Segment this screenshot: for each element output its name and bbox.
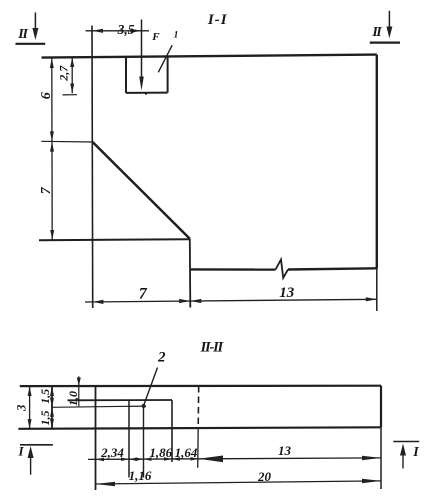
- svg-text:13: 13: [279, 285, 295, 301]
- section marker II left: label: [17, 27, 28, 42]
- svg-text:1,16: 1,16: [129, 468, 152, 483]
- svg-text:2,7: 2,7: [56, 65, 70, 82]
- svg-text:20: 20: [257, 469, 272, 484]
- body bottom edge left part: [190, 268, 275, 271]
- label 13 (top figure): [279, 285, 295, 301]
- label 1,5 lower: [38, 411, 52, 426]
- body right edge with extension below: [376, 55, 378, 311]
- hole left edge x=95.5 with extension below: [95, 386, 97, 490]
- force F line and arrow: [139, 20, 144, 91]
- label 1,64: [175, 445, 198, 460]
- inner vertical x=129 with extension below: [128, 400, 130, 477]
- svg-text:I-I: I-I: [207, 12, 228, 28]
- section marker I left: label: [17, 444, 24, 459]
- leader line for 2: [144, 368, 158, 406]
- slot left edge: [125, 57, 127, 93]
- label 6: [39, 92, 54, 99]
- hole right edge x=172 with extension below: [171, 400, 173, 462]
- svg-text:I: I: [412, 445, 419, 460]
- slot bottom edge: [126, 92, 168, 94]
- label 2: [157, 350, 166, 366]
- svg-text:II-II: II-II: [200, 340, 225, 356]
- svg-text:1,5: 1,5: [38, 411, 52, 426]
- label F: [151, 31, 160, 43]
- svg-text:1,64: 1,64: [175, 445, 198, 460]
- svg-text:6: 6: [39, 92, 54, 99]
- mid line y=407 with point 2 dot: [52, 404, 146, 408]
- label 20: [257, 469, 272, 484]
- label 1,16: [129, 468, 152, 483]
- label 13 (bottom figure): [278, 443, 292, 458]
- svg-text:7: 7: [139, 285, 148, 302]
- dimension 3: [14, 386, 31, 429]
- label 2,34: [100, 445, 124, 460]
- break symbol: [276, 260, 289, 278]
- svg-text:1,0: 1,0: [66, 391, 80, 406]
- vertical through point 2 x=143.5: [143, 406, 145, 478]
- svg-text:F: F: [151, 31, 160, 43]
- label 1,5 upper: [38, 389, 52, 404]
- svg-text:7: 7: [39, 186, 54, 194]
- leader line for 1: [158, 45, 172, 72]
- svg-text:13: 13: [278, 443, 292, 458]
- svg-text:3,5: 3,5: [117, 22, 135, 37]
- label 1,86: [149, 445, 172, 460]
- svg-text:1,5: 1,5: [38, 389, 52, 404]
- section marker I left: arrow: [28, 446, 34, 475]
- section marker I right: label: [412, 445, 419, 460]
- dimension 3,5: [86, 22, 150, 37]
- bar top edge: [20, 385, 381, 388]
- extension line y=141.5: [41, 140, 92, 143]
- dashed line x=198.5: [198, 386, 199, 468]
- label 1: [174, 30, 179, 40]
- body top edge (with left extension): [42, 55, 377, 58]
- bottom dimension line 7 / 13: [85, 297, 377, 304]
- body step vertical x=190 with extension below: [189, 239, 192, 308]
- bar left edge / dimension 1,5+1,5: [50, 386, 54, 429]
- section marker I right: underline: [393, 441, 419, 443]
- section marker I left: underline: [20, 444, 53, 446]
- body bottom edge right part: [288, 268, 377, 269]
- hole top edge with left extension: [68, 399, 173, 401]
- label 7 (vertical dim): [39, 186, 54, 194]
- bar right edge with extension below: [380, 386, 382, 489]
- section marker II right: label: [371, 25, 382, 40]
- section label II-II: [200, 340, 225, 356]
- dimension line 6/7 vertical: [50, 58, 54, 241]
- section marker II right: underline: [370, 41, 400, 43]
- section marker I right: arrow: [400, 444, 406, 469]
- dimension row 2: 1,16 / 20: [96, 479, 382, 486]
- svg-text:2,34: 2,34: [100, 445, 124, 460]
- body left edge / long extension line x=92: [91, 26, 94, 309]
- section marker II left: arrow: [32, 13, 38, 41]
- body diagonal edge: [93, 142, 190, 239]
- section label I-I: [207, 12, 228, 28]
- svg-text:1,86: 1,86: [149, 445, 172, 460]
- slot right edge: [167, 56, 169, 92]
- svg-text:3: 3: [14, 405, 28, 412]
- dimension row 1: 2,34 / 1,86 / 1,64 / 13: [88, 456, 381, 463]
- bar bottom edge: [18, 427, 381, 429]
- svg-text:1: 1: [174, 30, 179, 40]
- svg-text:I: I: [17, 444, 24, 459]
- extension dash for 2,7: [63, 93, 148, 95]
- label 7 (horizontal dim): [139, 285, 148, 302]
- section marker II right: arrow: [386, 11, 392, 38]
- body horizontal edge y=240 with left extension: [39, 239, 190, 240]
- svg-text:2: 2: [157, 350, 166, 366]
- dimension 2,7: [56, 57, 74, 93]
- section marker II left: underline: [16, 43, 46, 45]
- dimension 1,0: [66, 376, 81, 406]
